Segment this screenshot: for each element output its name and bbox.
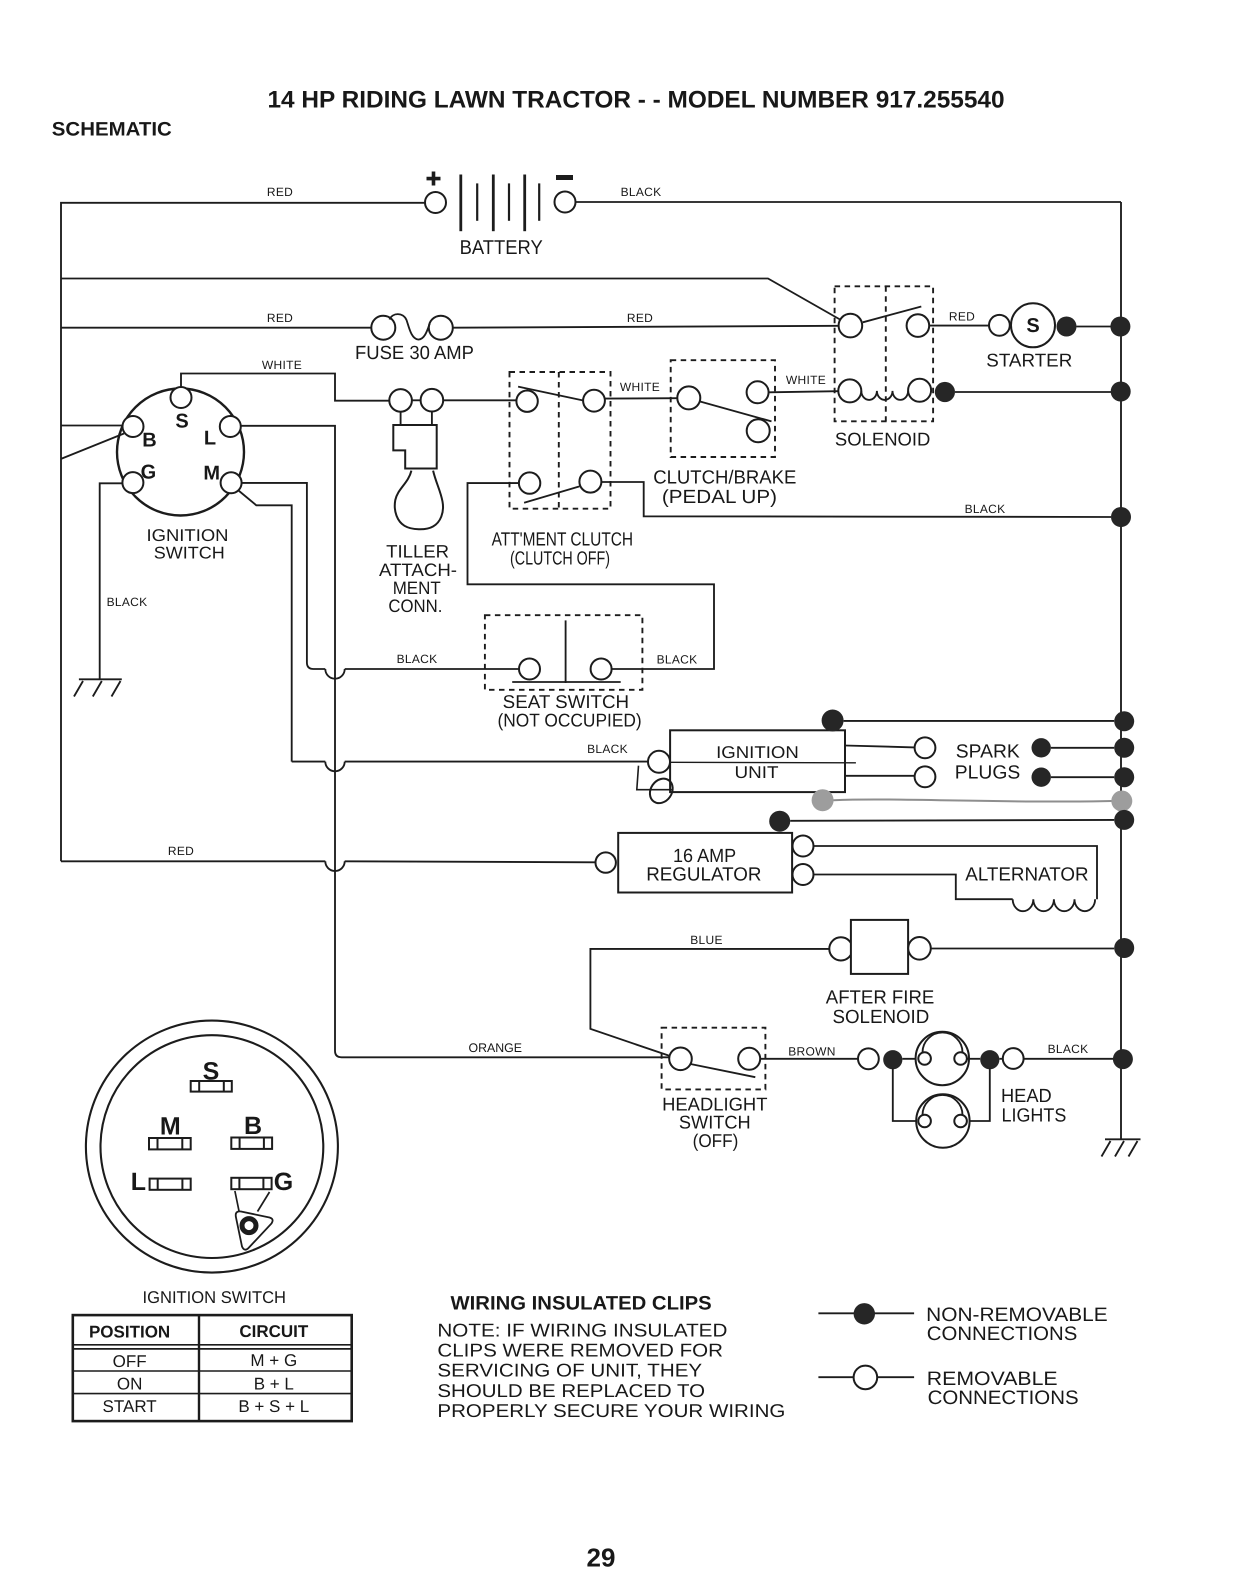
svg-text:NOTE: IF WIRING INSULATED: NOTE: IF WIRING INSULATED bbox=[437, 1319, 727, 1340]
wire ignition unit top to right trunk bbox=[844, 720, 1115, 722]
junction node right trunk headlight bbox=[1113, 1049, 1133, 1069]
svg-text:CIRCUIT: CIRCUIT bbox=[239, 1322, 309, 1341]
junction node right trunk blue bbox=[1114, 938, 1134, 958]
svg-text:B + S + L: B + S + L bbox=[238, 1397, 309, 1416]
ignition switch terminal B bbox=[123, 416, 157, 452]
svg-text:FUSE 30 AMP: FUSE 30 AMP bbox=[355, 343, 474, 364]
svg-text:(PEDAL UP): (PEDAL UP) bbox=[662, 487, 777, 508]
svg-text:WHITE: WHITE bbox=[620, 380, 660, 394]
svg-text:IGNITION: IGNITION bbox=[716, 743, 799, 762]
svg-text:M + G: M + G bbox=[250, 1351, 297, 1370]
removable connector headlight right bbox=[1003, 1048, 1024, 1069]
rear view lug L bbox=[131, 1168, 191, 1196]
svg-text:OFF: OFF bbox=[113, 1352, 147, 1371]
junction dot spark plug 2 bbox=[1032, 768, 1051, 787]
junction node right trunk spark 1 bbox=[1114, 738, 1134, 758]
svg-text:BLACK: BLACK bbox=[621, 185, 662, 199]
ignition switch terminal L bbox=[204, 416, 241, 450]
ignition switch terminal S bbox=[171, 387, 192, 433]
position circuit table bbox=[73, 1315, 352, 1421]
wire headlamp 2 parallel right bbox=[967, 1068, 990, 1121]
junction dot solenoid coil output bbox=[935, 382, 955, 402]
svg-text:LIGHTS: LIGHTS bbox=[1002, 1105, 1067, 1126]
wire brown headlight feed bbox=[760, 1058, 858, 1060]
junction node right trunk spark 2 bbox=[1114, 767, 1134, 787]
svg-text:RED: RED bbox=[267, 311, 293, 325]
svg-text:ATTACH-: ATTACH- bbox=[379, 560, 457, 580]
wire white coil to right trunk bbox=[955, 391, 1111, 393]
junction dot regulator top bbox=[769, 811, 790, 832]
svg-text:BLUE: BLUE bbox=[690, 933, 723, 947]
wire hop unit wire over L vertical bbox=[325, 762, 344, 772]
ignition unit input terminal bbox=[648, 751, 670, 773]
wire red branch to terminal B bbox=[61, 425, 122, 427]
ignition switch terminal G bbox=[122, 461, 156, 493]
svg-text:S: S bbox=[175, 411, 188, 433]
legend non-removable connection bbox=[818, 1303, 1107, 1345]
wire white clutch brake to solenoid coil bbox=[769, 391, 839, 392]
wire black terminal M diagonal to ignition unit trunk bbox=[239, 491, 292, 762]
solenoid box bbox=[835, 286, 934, 421]
ignition unit box bbox=[670, 730, 856, 792]
wire red regulator feed bbox=[61, 860, 325, 862]
svg-text:MENT: MENT bbox=[393, 578, 441, 598]
wire spark plug 2 to right trunk bbox=[1051, 776, 1114, 778]
svg-text:B + L: B + L bbox=[254, 1375, 294, 1394]
svg-text:POSITION: POSITION bbox=[89, 1323, 170, 1342]
svg-text:(OFF): (OFF) bbox=[693, 1130, 739, 1151]
wire regulator top dot to right trunk bbox=[790, 819, 1114, 822]
regulator input terminal bbox=[596, 852, 616, 872]
svg-text:14 HP RIDING LAWN TRACTOR - -: 14 HP RIDING LAWN TRACTOR - - MODEL NUMB… bbox=[268, 87, 1005, 114]
svg-text:SHOULD BE REPLACED TO: SHOULD BE REPLACED TO bbox=[437, 1380, 705, 1401]
svg-text:B: B bbox=[244, 1112, 262, 1140]
seat switch contacts bbox=[512, 620, 621, 683]
rear view lug G bbox=[231, 1168, 293, 1196]
ignition switch terminal M bbox=[203, 463, 241, 494]
wire red diagonal at terminal B bbox=[61, 434, 124, 459]
wire spark plug 1 to right trunk bbox=[1051, 747, 1114, 749]
attachment clutch label bbox=[492, 530, 633, 570]
alternator winding bbox=[814, 846, 1098, 911]
svg-text:IGNITION SWITCH: IGNITION SWITCH bbox=[143, 1288, 287, 1307]
svg-text:PLUGS: PLUGS bbox=[955, 763, 1021, 784]
svg-text:ORANGE: ORANGE bbox=[469, 1041, 523, 1055]
rear view key cylinder bbox=[235, 1191, 273, 1250]
svg-text:WHITE: WHITE bbox=[786, 373, 826, 387]
svg-text:G: G bbox=[141, 461, 157, 483]
wire dot to headlamp 1 bbox=[902, 1058, 918, 1060]
attachment clutch bottom contacts bbox=[519, 471, 602, 503]
svg-text:BLACK: BLACK bbox=[397, 652, 438, 666]
attachment clutch top contacts bbox=[516, 387, 605, 412]
svg-text:ALTERNATOR: ALTERNATOR bbox=[965, 865, 1088, 886]
junction node right trunk regulator bbox=[1114, 810, 1134, 830]
svg-text:SWITCH: SWITCH bbox=[154, 544, 225, 563]
battery BAT1 bbox=[425, 172, 576, 260]
svg-text:UNIT: UNIT bbox=[735, 763, 779, 782]
wire red battery positive feed bbox=[61, 203, 425, 279]
junction dot headlight left bbox=[883, 1050, 902, 1069]
svg-text:M: M bbox=[160, 1113, 181, 1141]
junction dot ignition unit top bbox=[822, 710, 844, 732]
wire hop regulator wire over L vertical bbox=[325, 861, 344, 871]
svg-text:L: L bbox=[131, 1168, 146, 1196]
svg-text:REGULATOR: REGULATOR bbox=[646, 864, 761, 885]
ignition unit scribble artifact bbox=[637, 766, 678, 808]
junction node right trunk black attachment bbox=[1111, 507, 1131, 527]
svg-text:CONN.: CONN. bbox=[388, 596, 442, 616]
junction dot spark plug 1 bbox=[1032, 738, 1051, 757]
svg-text:IGNITION: IGNITION bbox=[147, 526, 229, 545]
svg-text:SERVICING OF UNIT, THEY: SERVICING OF UNIT, THEY bbox=[437, 1360, 702, 1381]
seat switch box bbox=[485, 615, 643, 690]
seat switch label bbox=[498, 691, 642, 731]
rear view lug S bbox=[191, 1058, 232, 1092]
solenoid coil bbox=[838, 379, 931, 403]
wire after fire to right trunk bbox=[931, 948, 1114, 950]
svg-text:SPARK: SPARK bbox=[956, 741, 1020, 762]
wire red left vertical trunk bbox=[60, 279, 62, 862]
svg-text:CLUTCH/BRAKE: CLUTCH/BRAKE bbox=[653, 468, 796, 489]
svg-text:CLIPS WERE REMOVED FOR: CLIPS WERE REMOVED FOR bbox=[437, 1340, 723, 1361]
tiller attachment connector body bbox=[393, 425, 436, 469]
svg-text:STARTER: STARTER bbox=[986, 350, 1072, 371]
fuse F1 30 amp bbox=[355, 314, 474, 364]
ignition switch rear view outer circle bbox=[86, 1021, 338, 1273]
junction node right trunk unit top bbox=[1114, 711, 1134, 731]
junction node right trunk white bbox=[1111, 382, 1131, 402]
headlamp 1 bbox=[916, 1032, 969, 1085]
svg-text:CONNECTIONS: CONNECTIONS bbox=[928, 1387, 1079, 1409]
wire black right edge vertical trunk bbox=[1120, 202, 1122, 1139]
ignition switch SW1 body bbox=[117, 389, 244, 516]
wire red fuse feed bbox=[61, 327, 371, 329]
junction dot starter output bbox=[1057, 317, 1077, 337]
headlight switch contacts bbox=[669, 1048, 760, 1078]
svg-text:HEAD: HEAD bbox=[1001, 1086, 1052, 1107]
wire black from terminal G to ground bbox=[100, 483, 123, 679]
wiring insulated clips note bbox=[437, 1292, 785, 1421]
wire ignition unit to spark plug 1 bbox=[845, 746, 915, 748]
removable connector headlight bbox=[858, 1048, 879, 1069]
wire black attachment clutch lower loop to seat switch bbox=[468, 483, 715, 669]
wire dot to removable connector bbox=[999, 1058, 1002, 1060]
wire battery return to solenoid bbox=[61, 279, 844, 322]
headlight switch box bbox=[662, 1028, 766, 1090]
wire headlamp 1 internal to dot bbox=[967, 1058, 980, 1060]
svg-text:ON: ON bbox=[117, 1375, 143, 1394]
svg-text:TILLER: TILLER bbox=[386, 542, 449, 562]
wire red regulator feed segment bbox=[345, 861, 596, 862]
tiller attachment connector circles bbox=[389, 389, 443, 425]
wire black seat wire segment bbox=[345, 668, 519, 670]
svg-text:SCHEMATIC: SCHEMATIC bbox=[52, 119, 172, 141]
gray wire to right trunk bbox=[834, 799, 1112, 801]
svg-text:WHITE: WHITE bbox=[262, 358, 302, 372]
ignition switch label bbox=[147, 526, 229, 563]
wire white terminal L to headlight trunk bbox=[241, 426, 669, 1058]
wire black unit wire to hop bbox=[292, 761, 326, 763]
svg-text:START: START bbox=[103, 1397, 157, 1416]
svg-text:SOLENOID: SOLENOID bbox=[833, 1007, 930, 1028]
spark plugs label bbox=[955, 741, 1021, 783]
headlamp 2 bbox=[916, 1094, 969, 1147]
headlight switch label bbox=[662, 1094, 767, 1152]
gray clip dot ignition unit bottom bbox=[812, 789, 834, 811]
clutch brake pedal switch box bbox=[671, 360, 775, 457]
wire white attachment clutch to clutch brake bbox=[605, 397, 677, 399]
svg-text:CONNECTIONS: CONNECTIONS bbox=[927, 1323, 1078, 1345]
wire red fuse to solenoid bbox=[453, 326, 839, 328]
wire black battery negative to right edge bbox=[576, 201, 1122, 203]
wire headlamp 2 parallel left bbox=[893, 1068, 919, 1121]
svg-text:29: 29 bbox=[587, 1543, 616, 1573]
regulator box bbox=[618, 833, 792, 893]
svg-text:PROPERLY SECURE YOUR WIRING: PROPERLY SECURE YOUR WIRING bbox=[437, 1400, 785, 1421]
gray node right trunk bbox=[1111, 791, 1132, 812]
svg-text:BLACK: BLACK bbox=[965, 502, 1006, 516]
svg-text:L: L bbox=[204, 428, 216, 450]
rear view lug M bbox=[149, 1113, 191, 1150]
wire white tiller to attachment clutch bbox=[443, 399, 516, 401]
junction node right trunk at starter bbox=[1110, 317, 1130, 337]
solenoid main contacts bbox=[839, 307, 930, 338]
ground symbol left bbox=[74, 679, 122, 696]
svg-text:AFTER FIRE: AFTER FIRE bbox=[826, 988, 935, 1009]
svg-text:S: S bbox=[1026, 315, 1039, 337]
svg-text:RED: RED bbox=[267, 185, 293, 199]
svg-text:B: B bbox=[142, 430, 156, 452]
spark plug terminal 2 bbox=[915, 766, 936, 787]
wire white from terminal S bbox=[181, 374, 389, 401]
wire black terminal M to seat switch bbox=[242, 483, 326, 669]
svg-text:RED: RED bbox=[627, 311, 653, 325]
svg-text:BLACK: BLACK bbox=[1048, 1042, 1089, 1056]
rear view lug B bbox=[231, 1112, 272, 1149]
attachment clutch switch box bbox=[510, 372, 611, 509]
ground symbol right bbox=[1102, 1139, 1141, 1156]
svg-text:RED: RED bbox=[168, 844, 194, 858]
svg-text:BROWN: BROWN bbox=[788, 1045, 836, 1059]
wire red solenoid to starter bbox=[929, 325, 989, 327]
svg-text:BATTERY: BATTERY bbox=[460, 237, 543, 259]
tiller attachment label bbox=[379, 542, 457, 617]
junction dot headlight right bbox=[980, 1050, 999, 1069]
svg-text:SOLENOID: SOLENOID bbox=[835, 429, 931, 450]
starter M1 bbox=[986, 303, 1072, 370]
clutch brake label bbox=[653, 468, 796, 508]
svg-text:G: G bbox=[274, 1168, 293, 1196]
after fire solenoid bbox=[826, 920, 935, 1028]
wire hop seat wire over L vertical bbox=[325, 669, 344, 679]
tiller attachment bulb bbox=[395, 471, 443, 530]
svg-text:BLACK: BLACK bbox=[107, 595, 148, 609]
svg-text:S: S bbox=[203, 1058, 220, 1086]
wire ignition unit to spark plug 2 bbox=[845, 775, 915, 777]
wire black headlight return bbox=[1024, 1058, 1113, 1060]
svg-text:(NOT OCCUPIED): (NOT OCCUPIED) bbox=[498, 710, 642, 731]
svg-text:RED: RED bbox=[949, 310, 975, 324]
svg-text:BLACK: BLACK bbox=[587, 742, 628, 756]
wire blue after fire feed bbox=[590, 949, 829, 1056]
spark plug terminal 1 bbox=[915, 737, 936, 758]
wire black attachment clutch to right trunk bbox=[601, 482, 1111, 517]
wire starter to right trunk bbox=[1077, 326, 1112, 328]
regulator output terminals bbox=[793, 836, 814, 886]
svg-text:M: M bbox=[203, 463, 220, 485]
svg-text:WIRING INSULATED CLIPS: WIRING INSULATED CLIPS bbox=[451, 1292, 712, 1314]
clutch brake contacts bbox=[677, 381, 771, 442]
svg-text:BLACK: BLACK bbox=[657, 653, 698, 667]
headlights label bbox=[1001, 1086, 1066, 1126]
svg-text:(CLUTCH OFF): (CLUTCH OFF) bbox=[510, 549, 610, 570]
wire black unit wire segment bbox=[345, 761, 648, 763]
legend removable connection bbox=[818, 1366, 1078, 1409]
svg-text:ATT'MENT CLUTCH: ATT'MENT CLUTCH bbox=[492, 530, 633, 551]
